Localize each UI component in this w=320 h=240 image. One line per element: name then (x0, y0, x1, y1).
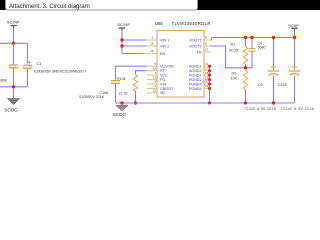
junctions on AGND/PGND bus (208, 65, 211, 105)
svg-text:20: 20 (205, 80, 209, 84)
svg-text:PG: PG (160, 78, 165, 82)
junction VIN2 (120, 44, 123, 47)
node A junction (12, 42, 15, 45)
junction output rail / C4 (250, 36, 253, 39)
svg-text:RT: RT (160, 69, 166, 73)
pin 7 VCC stub (147, 74, 157, 76)
wire rail VIN left (to image edge) (0, 42, 28, 44)
top black toolbar strip (0, 0, 320, 10)
svg-text:EN: EN (160, 52, 165, 56)
svg-text:21: 21 (205, 84, 209, 88)
wire C3 branch down (27, 43, 29, 63)
svg-text:U65: U65 (155, 21, 163, 26)
pin 15 NC stub (147, 92, 157, 94)
svg-text:PGND2: PGND2 (189, 78, 202, 82)
svg-text:14: 14 (150, 49, 154, 53)
junction output rail / R1 (244, 36, 247, 39)
wire VOUT2/FB to divider (211, 46, 253, 68)
junction on ground rail (12, 85, 15, 88)
supply SC6P (288, 23, 299, 31)
svg-text:PGND4: PGND4 (189, 87, 202, 91)
svg-text:VOUT1: VOUT1 (189, 38, 201, 42)
wire to EN (122, 53, 144, 55)
svg-text:C5: C5 (258, 83, 263, 87)
junction FB node (244, 66, 248, 70)
pin 2 CBOOT stub (147, 87, 157, 89)
svg-text:VLDOIN: VLDOIN (160, 65, 174, 69)
svg-text:SW: SW (160, 82, 166, 86)
svg-text:PGND1: PGND1 (189, 73, 202, 77)
pin 9 VOUT2 stub (204, 45, 211, 47)
svg-text:11: 11 (205, 62, 208, 66)
capacitor C145 (polarized) (278, 65, 301, 103)
pin 16 VIN2 stub (147, 45, 158, 47)
svg-text:Attachment: 3. Circuit diagra: Attachment: 3. Circuit diagram (9, 4, 90, 10)
wire ground rail left (to image edge) (0, 86, 28, 88)
svg-text:CBOOT: CBOOT (160, 87, 174, 91)
ground rail (bottom) (116, 102, 295, 104)
svg-text:AGND2: AGND2 (189, 69, 202, 73)
svg-text:10K: 10K (231, 76, 238, 80)
svg-text:12: 12 (153, 66, 157, 70)
left pin numbers (150, 36, 156, 93)
pin 1 VIN1 stub (147, 39, 158, 41)
junction R3 / ground rail (244, 101, 247, 104)
svg-text:R136: R136 (117, 77, 126, 81)
svg-text:SCOG: SCOG (4, 108, 18, 113)
IC U65 TLVM13640RDLR (155, 21, 211, 97)
output rail (top right) (212, 37, 295, 39)
wire R136 to ground rail (135, 91, 137, 103)
junction C5 / ground rail (272, 101, 275, 104)
svg-text:S105/50V 3216: S105/50V 3216 (79, 95, 104, 99)
pin 5 VLDOIN stub (147, 65, 158, 67)
wire C3 to ground rail (27, 69, 29, 87)
pin 10 FB stub (204, 51, 211, 53)
wire C168 down to ground rail corner (115, 84, 117, 103)
svg-text:T22uF 6.3V 3216: T22uF 6.3V 3216 (281, 107, 314, 111)
resistor R1 40.2K (230, 38, 248, 68)
resistor R136 12.1K (117, 74, 138, 95)
svg-text:5080: 5080 (258, 46, 266, 50)
wire AGND/PGND bus down to ground rail (209, 66, 211, 103)
svg-text:19: 19 (205, 75, 209, 79)
resistor R3 10K (231, 70, 248, 103)
svg-text:PGND3: PGND3 (189, 82, 202, 86)
svg-text:FB: FB (197, 50, 202, 54)
pin 12 RT stub (147, 70, 158, 72)
junction SCDG (120, 101, 123, 104)
supply SC24P (middle) (117, 22, 130, 30)
AGND/PGND stubs pins 11,17,18,19,20,21 (204, 66, 210, 88)
wire SC24P to node A (13, 28, 15, 43)
pin 8 VOUT1 stub (204, 39, 211, 41)
wire node A down to C1608 (13, 43, 15, 64)
svg-text:VOUT2: VOUT2 (189, 44, 201, 48)
svg-text:R3: R3 (232, 72, 237, 76)
left pin labels (160, 38, 174, 95)
wire SC6P down / capacitor C145 column (294, 31, 296, 70)
svg-text:12.1K: 12.1K (119, 91, 129, 95)
svg-text:40.2K: 40.2K (230, 48, 240, 52)
svg-text:SCDG: SCDG (113, 112, 127, 117)
svg-text:16: 16 (150, 42, 154, 46)
pin 13 PG stub (147, 79, 157, 81)
supply SC24P (left) (7, 20, 20, 28)
right pin labels (189, 38, 202, 90)
white title tab (6, 0, 198, 10)
junction R136/rail (134, 101, 137, 104)
wire VLDOIN to C168 (116, 66, 147, 80)
svg-text:15: 15 (153, 89, 157, 93)
capacitor C3 (polarized electrolytic) (23, 61, 87, 73)
svg-text:SC24P: SC24P (7, 20, 20, 25)
capacitor C4 5080 (249, 38, 266, 68)
svg-text:SC24P: SC24P (117, 22, 130, 27)
svg-text:NC: NC (160, 91, 166, 95)
junction SC6P / output rail (293, 36, 296, 39)
wire to VIN2 (122, 45, 147, 47)
svg-text:VCC: VCC (160, 73, 168, 77)
right pin numbers (205, 36, 209, 89)
svg-text:VIN 2: VIN 2 (160, 44, 169, 48)
svg-text:C3: C3 (37, 62, 42, 66)
svg-text:1608: 1608 (0, 79, 7, 83)
svg-text:10: 10 (205, 48, 209, 52)
wire VOUT1 riser to output rail (211, 38, 212, 41)
svg-text:E100uF/35V SMD-SC1C107M6.3X7.7: E100uF/35V SMD-SC1C107M6.3X7.7 (34, 70, 86, 74)
pin 3 SW stub (147, 83, 157, 85)
svg-text:C145: C145 (278, 83, 287, 87)
wire C1608 to ground rail (13, 68, 15, 98)
junction VIN1 (120, 38, 123, 41)
junction output rail / C5 (272, 36, 275, 39)
svg-text:T22uF 6.3V 3216: T22uF 6.3V 3216 (244, 107, 276, 111)
ground SCOG (4, 99, 19, 113)
svg-text:VIN 1: VIN 1 (160, 38, 169, 42)
capacitor C168 (79, 80, 120, 99)
wire to VIN1 (122, 39, 147, 41)
svg-text:17: 17 (205, 66, 209, 70)
wire middle supply column (121, 31, 123, 54)
pin 14 EN stub (144, 53, 158, 55)
capacitor C5 (polarized) (258, 38, 280, 104)
wire RT to R136 (136, 71, 147, 75)
capacitor 1608 (left, label cut at edge) (0, 64, 18, 82)
svg-text:13: 13 (153, 75, 157, 79)
ground SCDG (113, 105, 128, 117)
svg-text:18: 18 (205, 71, 209, 75)
svg-text:TLVM13640RDLR: TLVM13640RDLR (172, 21, 211, 26)
svg-text:R1: R1 (231, 43, 236, 47)
svg-text:SC6P: SC6P (288, 23, 299, 28)
svg-text:AGND1: AGND1 (189, 65, 202, 69)
